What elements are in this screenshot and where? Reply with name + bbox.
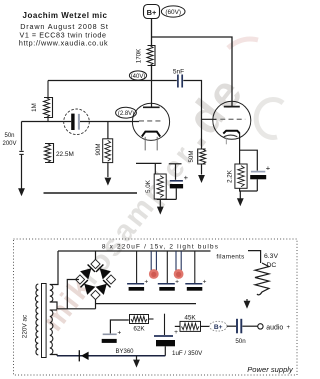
transformer primary winding [35,284,38,355]
wire V1a cathode node [136,162,162,164]
svg-text:audio: audio [266,325,283,332]
resistor 45K [175,314,210,331]
wire V1b cathode down [239,133,241,164]
svg-text:1M: 1M [31,103,38,112]
transformer secondary upper winding [50,285,53,303]
svg-text:http://www.xaudia.co.uk: http://www.xaudia.co.uk [19,39,108,48]
svg-text:90M: 90M [95,143,102,155]
tube V1 triode B envelope [213,101,251,139]
resistor 22.5M [45,144,74,163]
transformer core [42,284,47,358]
node label (2.8V) [116,107,137,118]
wire capsule to V1a grid [80,121,139,123]
wire B+ rail to V1b anode [152,37,233,106]
svg-text:45K: 45K [184,314,196,321]
svg-text:DC: DC [267,262,277,269]
wire bridge + to rail [95,251,97,260]
svg-text:+: + [174,329,178,336]
wire 2.2K bottom node [240,188,258,191]
svg-text:+: + [144,279,148,286]
svg-text:+: + [184,173,189,182]
wire secondary bottom to 0V rail [50,355,57,356]
resistor 50M [188,119,206,183]
wire bridge out to B+ filter [96,303,197,305]
capacitor 5nF [173,69,184,88]
light bulb 1 [149,251,159,279]
wire to filament dropper [248,251,261,263]
node label (40V) [129,71,146,80]
svg-text:6.3V: 6.3V [264,253,278,260]
resistor 90M [95,122,113,186]
svg-text:220V ac: 220V ac [22,314,29,338]
resistor 170K [136,37,156,81]
wire anode node (40V) horizontal [48,80,177,82]
ground rail [44,192,138,194]
svg-text:B+: B+ [147,8,157,17]
resistor 62K [130,315,154,333]
arrow filament return [244,299,251,309]
arrow to ground [237,191,244,206]
bridge rectifier diodes [75,259,115,299]
svg-text:Joachim Wetzel mic: Joachim Wetzel mic [23,11,108,20]
wire capsule feed with 50n cap to PSU [22,121,72,123]
svg-text:2.2K: 2.2K [227,169,234,183]
svg-text:+: + [117,330,121,337]
V1a anode [143,81,160,108]
arrow to ground [157,199,164,214]
svg-text:filaments: filaments [216,254,244,261]
node label (60V) [161,6,185,17]
title text block [19,11,109,48]
resistor filament dropper [255,263,269,295]
V1b grid (dashed) [220,118,245,120]
light bulb 2 [174,251,184,279]
wire secondary centre tap [50,302,96,309]
audio output terminal [258,324,291,332]
V1b anode [224,106,240,108]
V1a heater leads [145,137,157,151]
node label B+ [209,321,227,331]
svg-text:1uF / 350V: 1uF / 350V [172,350,203,357]
svg-text:8 x 220uF / 15v, 2 light bulbs: 8 x 220uF / 15v, 2 light bulbs [102,243,219,250]
0V rail [57,355,165,357]
svg-text:+: + [266,164,271,173]
arrow to power supply [18,188,25,196]
svg-text:Power supply: Power supply [247,365,294,374]
resistor 5.0K [145,163,166,199]
svg-text:22.5M: 22.5M [56,151,74,158]
label 6.3V DC [264,253,278,269]
svg-text:5.0K: 5.0K [145,179,152,193]
diode on 0V rail [79,350,88,361]
svg-text:+: + [203,279,207,286]
arrow rail to ground [133,356,140,368]
capacitor output (polarized) [240,150,271,191]
label 50n 200V [2,133,16,147]
resistor 1M [31,81,53,122]
V1b cathode [223,131,239,134]
wire bridge bottom [95,300,97,309]
wire 5nF to V1b grid [183,81,216,120]
wire B+ down to rail [151,19,153,38]
svg-text:BY360: BY360 [115,349,134,355]
svg-text:170K: 170K [136,48,143,63]
svg-text:50M: 50M [188,150,195,162]
capacitor reservoir 3 [185,251,206,291]
wire cathode network bottom [157,198,177,200]
wire HT rail [58,250,211,252]
transformer secondary lower winding [50,310,53,355]
svg-text:50n: 50n [235,338,246,345]
capacitor reservoir 1 [127,251,148,291]
svg-text:B+: B+ [214,324,223,331]
V1a cathode [142,132,160,137]
resistor 2.2K [227,164,247,188]
wire bridge AC left [67,280,79,309]
svg-text:+: + [287,325,291,331]
svg-text:(2.8V): (2.8V) [118,111,134,117]
svg-text:62K: 62K [133,326,145,333]
capacitor filter 1 (polarized) [102,330,122,343]
capacitor 1uF 350V (polarized) [154,314,178,356]
svg-text:(60V): (60V) [165,9,181,16]
svg-text:+: + [175,279,179,286]
power supply enclosure (dashed) [14,239,298,375]
V1a grid (dashed) [139,120,163,122]
svg-text:50n: 50n [4,133,14,139]
wire secondary top to HT rail [50,251,58,285]
B+ supply terminal [144,5,160,19]
wire bridge minus to 62K [110,320,128,333]
svg-text:5nF: 5nF [173,69,184,76]
capacitor cathode bypass (polarized) [169,164,189,200]
svg-text:(40V): (40V) [131,74,146,80]
V1b heater [224,135,238,144]
capacitor (small) in capsule return [19,150,23,152]
capacitor reservoir 2 [158,251,179,291]
svg-text:200V: 200V [2,141,16,147]
microphone capsule [64,109,90,135]
tube V1 triode A envelope [132,103,169,140]
capacitor 50n output [227,319,258,334]
